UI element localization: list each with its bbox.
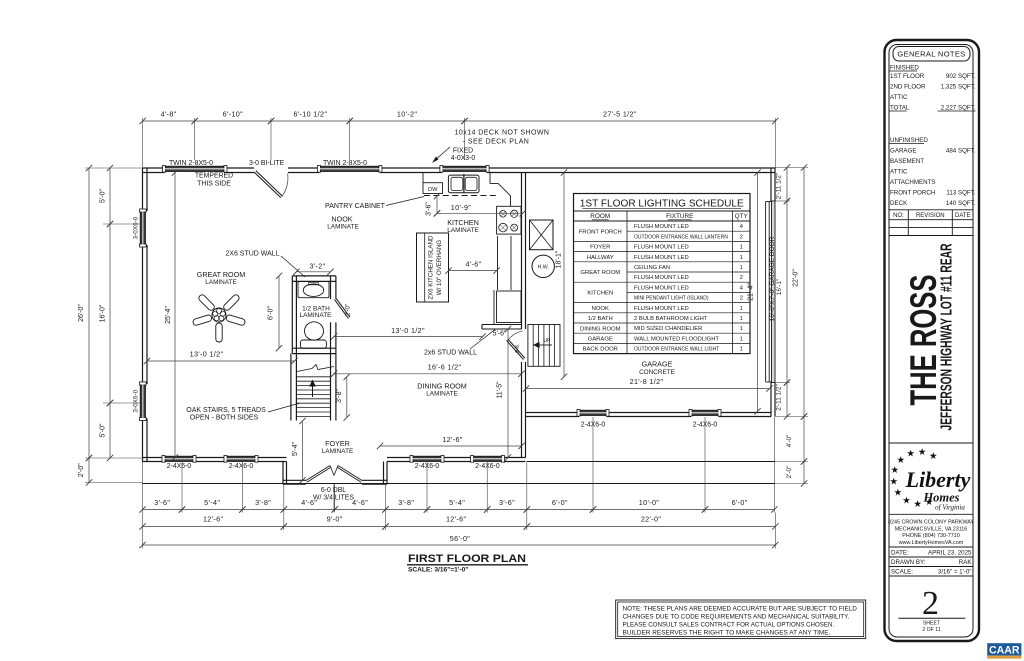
svg-text:DECK: DECK xyxy=(890,200,908,207)
svg-text:LAMINATE: LAMINATE xyxy=(447,227,479,234)
svg-text:2-4X6-0: 2-4X6-0 xyxy=(167,463,192,470)
oak stairs treads xyxy=(296,376,330,378)
ceiling fan, great room xyxy=(222,294,240,312)
svg-text:PANTRY CABINET: PANTRY CABINET xyxy=(325,203,386,210)
svg-text:1: 1 xyxy=(740,336,743,342)
svg-text:2: 2 xyxy=(922,585,939,622)
svg-text:SCALE:: SCALE: xyxy=(891,569,913,576)
dim 3-6 kitchen vertical xyxy=(436,196,438,213)
back wall (north) of house and garage xyxy=(143,167,165,169)
dim 11-5 dining xyxy=(507,329,509,458)
svg-text:MINI PENDANT LIGHT (ISLAND): MINI PENDANT LIGHT (ISLAND) xyxy=(634,296,709,302)
svg-text:2: 2 xyxy=(740,234,743,240)
svg-text:1: 1 xyxy=(740,316,743,322)
stairs up arrow xyxy=(312,385,314,397)
title block outer frame xyxy=(885,40,980,641)
note box xyxy=(616,600,866,639)
svg-text:2ND FLOOR: 2ND FLOOR xyxy=(890,84,926,91)
svg-text:of Virginia: of Virginia xyxy=(935,504,965,512)
svg-text:CEILING FAN: CEILING FAN xyxy=(634,265,670,271)
door 2-8 hall to garage: leaf + arc xyxy=(507,341,524,360)
range w/ 4 burners xyxy=(497,206,521,234)
svg-text:FLUSH MOUNT LED: FLUSH MOUNT LED xyxy=(634,306,689,312)
dim 10-9 kitchen xyxy=(437,212,523,214)
svg-text:FINISHED: FINISHED xyxy=(890,65,919,72)
kitchen island 2x6 w/ 10in overhang xyxy=(417,233,449,302)
svg-text:LAMINATE: LAMINATE xyxy=(299,312,332,319)
svg-text:SCALE: 3/16"=1'-0": SCALE: 3/16"=1'-0" xyxy=(408,567,468,574)
svg-text:★: ★ xyxy=(913,499,922,510)
svg-text:4'-8": 4'-8" xyxy=(161,110,177,119)
house/garage divider wall xyxy=(521,173,523,330)
svg-text:DATE: DATE xyxy=(955,213,971,219)
svg-text:6'-0": 6'-0" xyxy=(268,306,275,320)
foyer bump-out front wall w/ entry door opening xyxy=(283,479,306,481)
svg-text:WALL MOUNTED FLOODLIGHT: WALL MOUNTED FLOODLIGHT xyxy=(634,336,719,342)
kitchen counter corner to range xyxy=(490,184,511,207)
window 2-4x6-0 (garage front east) xyxy=(691,410,719,415)
svg-text:4-0X3-0: 4-0X3-0 xyxy=(451,155,476,162)
svg-text:10'-0": 10'-0" xyxy=(639,498,660,507)
svg-text:2'-0": 2'-0" xyxy=(78,463,85,477)
svg-text:FRONT PORCH: FRONT PORCH xyxy=(890,190,935,197)
svg-text:18'-1": 18'-1" xyxy=(556,250,563,268)
svg-text:MECHANICSVILLE, VA 23116: MECHANICSVILLE, VA 23116 xyxy=(895,526,968,532)
svg-text:MID SIZED CHANDELIER: MID SIZED CHANDELIER xyxy=(634,326,702,332)
svg-text:6'-0": 6'-0" xyxy=(552,498,568,507)
1st floor lighting schedule table xyxy=(574,194,751,354)
svg-text:16'-1": 16'-1" xyxy=(776,279,783,295)
svg-text:2 BULB BATHROOM LIGHT: 2 BULB BATHROOM LIGHT xyxy=(634,316,708,322)
svg-text:10x14 DECK NOT SHOWN: 10x14 DECK NOT SHOWN xyxy=(455,130,550,137)
svg-text:www.LibertyHomesVA.com: www.LibertyHomesVA.com xyxy=(898,540,964,546)
dim 3-2 half bath xyxy=(296,271,330,273)
svg-text:HALLWAY: HALLWAY xyxy=(587,255,614,261)
svg-text:25'-4": 25'-4" xyxy=(165,306,172,324)
svg-text:2-8: 2-8 xyxy=(515,345,521,353)
top dimension string xyxy=(194,118,196,160)
svg-text:W/ 10" OVERHANG: W/ 10" OVERHANG xyxy=(436,240,443,296)
svg-text:SHEET: SHEET xyxy=(923,621,941,627)
window 2-4x6-0 (front, dining east) xyxy=(473,456,503,461)
svg-text:16'-6 1/2": 16'-6 1/2" xyxy=(428,362,462,371)
garage right (east) wall xyxy=(770,168,772,202)
svg-text:UP: UP xyxy=(544,338,552,344)
svg-text:5'-4": 5'-4" xyxy=(204,498,220,507)
bottom dimension extension lines xyxy=(142,462,144,513)
svg-text:GREAT ROOM: GREAT ROOM xyxy=(197,270,245,279)
svg-text:4'-0": 4'-0" xyxy=(786,435,793,448)
garage interior dims xyxy=(563,173,565,377)
plan name: THE ROSS xyxy=(889,236,973,238)
svg-text:4'-6": 4'-6" xyxy=(465,260,481,269)
svg-text:PLEASE CONSULT SALES CONTRACT: PLEASE CONSULT SALES CONTRACT FOR ACTUAL… xyxy=(623,621,835,628)
svg-text:OUTDOOR ENTRANCE WALL LIGHT: OUTDOOR ENTRANCE WALL LIGHT xyxy=(634,347,719,353)
furnace (box with X) xyxy=(530,220,554,250)
svg-text:APRIL 23, 2025: APRIL 23, 2025 xyxy=(928,550,972,557)
svg-text:LAMINATE: LAMINATE xyxy=(327,224,359,231)
svg-text:6'-0": 6'-0" xyxy=(732,498,748,507)
dim 3-8 stairs xyxy=(346,377,348,418)
2x6 stud wall kitchen/hall xyxy=(482,324,522,326)
svg-text:3'-6": 3'-6" xyxy=(499,498,515,507)
dim 5-4 foyer xyxy=(302,421,304,480)
window 2-4x6-0 (front, great room east) xyxy=(226,456,256,461)
half bath door 2-0 leaf + arc xyxy=(335,300,349,319)
svg-text:1ST FLOOR LIGHTING SCHEDULE: 1ST FLOOR LIGHTING SCHEDULE xyxy=(580,199,744,210)
svg-text:484 SQFT.: 484 SQFT. xyxy=(946,148,976,155)
svg-text:QTY: QTY xyxy=(735,213,749,220)
svg-text:JEFFERSON HIGHWAY LOT #11 REAR: JEFFERSON HIGHWAY LOT #11 REAR xyxy=(939,243,956,430)
interior dim 13-0 1/2 great room xyxy=(147,360,294,362)
svg-text:22'-0": 22'-0" xyxy=(641,515,662,524)
svg-text:TEMPERED: TEMPERED xyxy=(195,173,233,180)
right side dimension strings xyxy=(775,167,808,169)
svg-text:902 SQFT.: 902 SQFT. xyxy=(946,73,976,80)
svg-text:3'-6": 3'-6" xyxy=(426,202,433,216)
svg-text:FLUSH MOUNT LED: FLUSH MOUNT LED xyxy=(634,255,689,261)
pantry cabinet dashed line along counter xyxy=(424,195,498,197)
garage front wall w/ two window openings xyxy=(526,412,580,414)
svg-text:OUTDOOR ENTRANCE WALL LANTERN: OUTDOOR ENTRANCE WALL LANTERN xyxy=(634,234,728,240)
svg-text:LAMINATE: LAMINATE xyxy=(322,448,354,455)
svg-text:12'-6": 12'-6" xyxy=(442,435,463,444)
svg-text:★: ★ xyxy=(891,465,900,476)
svg-text:LAMINATE: LAMINATE xyxy=(426,391,458,398)
svg-text:1: 1 xyxy=(740,255,743,261)
svg-text:4'-6": 4'-6" xyxy=(352,498,368,507)
svg-text:9'-0": 9'-0" xyxy=(327,515,343,524)
svg-text:2,227 SQFT.: 2,227 SQFT. xyxy=(941,105,976,112)
svg-text:- SEE DECK PLAN: - SEE DECK PLAN xyxy=(463,139,530,146)
svg-text:3-0X6-0: 3-0X6-0 xyxy=(133,216,140,239)
kitchen sink double bowl xyxy=(448,175,479,193)
svg-text:5'-0": 5'-0" xyxy=(100,423,107,437)
svg-text:3-0X6-0: 3-0X6-0 xyxy=(133,389,140,412)
svg-text:3'-8": 3'-8" xyxy=(255,498,271,507)
kitchen cabinet stub wall left of DW xyxy=(422,173,424,184)
svg-text:12'-6": 12'-6" xyxy=(446,515,467,524)
revision table xyxy=(889,209,973,211)
svg-text:16'-0": 16'-0" xyxy=(100,304,107,322)
window twin 2-8x5-0 (great room north) xyxy=(164,166,225,171)
window twin 2-8x5-0 (nook north) xyxy=(319,166,380,171)
svg-text:BASEMENT: BASEMENT xyxy=(890,158,924,165)
svg-text:DW: DW xyxy=(428,187,438,193)
interior dim 25-4 great room xyxy=(174,173,176,458)
garage dim 21-8 1/2 xyxy=(526,388,770,390)
left (west) exterior wall xyxy=(142,168,144,211)
svg-text:H.W.: H.W. xyxy=(538,264,549,270)
landing break line xyxy=(297,365,334,372)
svg-text:OAK STAIRS, 5 TREADS: OAK STAIRS, 5 TREADS xyxy=(186,407,266,414)
svg-text:PHONE (804) 730-7710: PHONE (804) 730-7710 xyxy=(902,533,960,539)
svg-text:CONCRETE: CONCRETE xyxy=(639,369,675,376)
garage door 16-0x7-0 in right wall xyxy=(772,201,776,383)
foyer bump-out east jog xyxy=(383,462,385,485)
general notes header xyxy=(893,47,970,62)
dim 12-6 dining xyxy=(380,445,522,447)
svg-text:ROOM: ROOM xyxy=(590,213,610,220)
bottom dim row 1 xyxy=(143,509,183,511)
svg-text:5'-4": 5'-4" xyxy=(449,498,465,507)
svg-text:2'-0": 2'-0" xyxy=(786,466,793,479)
svg-text:CHANGES DUE TO CODE REQUIREMEN: CHANGES DUE TO CODE REQUIREMENTS AND MEC… xyxy=(623,613,850,620)
svg-text:NOTE: THESE PLANS ARE DEEMED A: NOTE: THESE PLANS ARE DEEMED ACCURATE BU… xyxy=(623,605,858,612)
svg-text:FLUSH MOUNT LED: FLUSH MOUNT LED xyxy=(634,275,689,281)
svg-text:★: ★ xyxy=(929,451,938,462)
svg-text:FOYER: FOYER xyxy=(590,245,610,251)
svg-text:DRAWN BY:: DRAWN BY: xyxy=(891,559,926,566)
dim 13-0 1/2 nook/kitchen xyxy=(334,336,483,338)
svg-text:2-4X6-0: 2-4X6-0 xyxy=(229,463,254,470)
svg-text:11'-5": 11'-5" xyxy=(497,381,504,399)
svg-text:RAK: RAK xyxy=(959,559,973,566)
svg-text:★: ★ xyxy=(918,447,927,458)
svg-text:5'-6": 5'-6" xyxy=(493,330,507,337)
svg-text:1: 1 xyxy=(740,245,743,251)
svg-text:113 SQFT.: 113 SQFT. xyxy=(946,190,975,197)
svg-text:1: 1 xyxy=(740,347,743,353)
svg-text:2X6 KITCHEN ISLAND: 2X6 KITCHEN ISLAND xyxy=(427,235,434,299)
svg-text:2'-11 1/2": 2'-11 1/2" xyxy=(776,384,783,410)
svg-text:NOOK: NOOK xyxy=(331,215,352,224)
svg-text:2'-0": 2'-0" xyxy=(345,304,352,317)
svg-text:3'-2": 3'-2" xyxy=(309,261,325,270)
svg-text:3/16" = 1'-0": 3/16" = 1'-0" xyxy=(938,569,972,576)
svg-text:2x6 STUD WALL: 2x6 STUD WALL xyxy=(424,350,477,357)
svg-text:ATTIC: ATTIC xyxy=(890,94,908,101)
svg-text:★: ★ xyxy=(890,477,899,488)
svg-text:KITCHEN: KITCHEN xyxy=(587,291,613,297)
svg-text:6'-10": 6'-10" xyxy=(223,110,244,119)
svg-text:1/2 BATH: 1/2 BATH xyxy=(588,316,613,322)
svg-text:OPEN - BOTH SIDES: OPEN - BOTH SIDES xyxy=(190,415,259,422)
svg-text:26'-0": 26'-0" xyxy=(78,304,85,322)
water heater H.W. xyxy=(532,255,554,277)
garage entry stairs w/ UP arrow xyxy=(528,325,560,367)
stoop edge line right of house front xyxy=(527,461,776,463)
svg-text:FLUSH MOUNT LED: FLUSH MOUNT LED xyxy=(634,285,689,291)
svg-text:56'-0": 56'-0" xyxy=(450,534,471,543)
svg-text:3'-8": 3'-8" xyxy=(398,498,414,507)
svg-text:2X6 STUD WALL: 2X6 STUD WALL xyxy=(225,251,279,258)
window fixed 4-0x3-0 (kitchen north) xyxy=(442,166,487,171)
svg-text:21'-8 1/2": 21'-8 1/2" xyxy=(630,377,664,386)
dim 16-6 1/2 hall xyxy=(334,373,522,375)
svg-text:1,325 SQFT.: 1,325 SQFT. xyxy=(941,84,976,91)
svg-text:THIS SIDE: THIS SIDE xyxy=(197,181,231,188)
window 3-0x6-0 (left wall upper) xyxy=(140,211,145,245)
CAAR logo xyxy=(987,643,1021,655)
svg-text:FLUSH MOUNT LED: FLUSH MOUNT LED xyxy=(634,245,689,251)
svg-text:CAAR: CAAR xyxy=(989,645,1020,657)
svg-text:GARAGE: GARAGE xyxy=(588,337,613,343)
window 3-0x6-0 (left wall lower) xyxy=(140,384,145,419)
svg-text:GREAT ROOM: GREAT ROOM xyxy=(580,270,620,276)
svg-text:LAMINATE: LAMINATE xyxy=(205,279,237,286)
svg-text:FRONT PORCH: FRONT PORCH xyxy=(579,229,622,235)
half bath walls xyxy=(291,276,293,354)
front (south) wall, great room side xyxy=(143,457,165,459)
svg-text:5'-0": 5'-0" xyxy=(100,189,107,203)
svg-text:NO:: NO: xyxy=(893,213,904,219)
svg-text:ATTIC: ATTIC xyxy=(890,169,908,176)
svg-text:GARAGE: GARAGE xyxy=(642,360,673,369)
svg-text:22'-0": 22'-0" xyxy=(793,269,800,287)
svg-text:TWIN 2-8X5-0: TWIN 2-8X5-0 xyxy=(323,160,367,167)
window 2-4x6-0 (front, dining west) xyxy=(412,456,442,461)
svg-text:KITCHEN: KITCHEN xyxy=(447,218,479,227)
refrigerator xyxy=(493,290,495,325)
svg-text:FIXTURE: FIXTURE xyxy=(666,213,693,220)
svg-text:10'-9": 10'-9" xyxy=(451,203,472,212)
svg-text:2'-11 1/2": 2'-11 1/2" xyxy=(776,173,783,199)
svg-text:2-4X6-0: 2-4X6-0 xyxy=(475,463,500,470)
svg-text:1: 1 xyxy=(740,306,743,312)
svg-text:TWIN 2-8X5-0: TWIN 2-8X5-0 xyxy=(169,160,213,167)
door 3-0 bi-lite leaf + swing arc xyxy=(254,172,281,198)
svg-text:NOOK: NOOK xyxy=(592,306,609,312)
svg-text:REVISION: REVISION xyxy=(916,213,945,219)
svg-text:10'-2": 10'-2" xyxy=(397,110,418,119)
svg-text:4'-6": 4'-6" xyxy=(301,498,317,507)
date / drawn by / scale rows xyxy=(889,546,973,548)
svg-text:UNFINISHED: UNFINISHED xyxy=(890,137,928,144)
svg-text:FIRST FLOOR PLAN: FIRST FLOOR PLAN xyxy=(408,553,526,565)
svg-text:★: ★ xyxy=(902,496,911,507)
svg-text:GENERAL NOTES: GENERAL NOTES xyxy=(897,50,965,59)
svg-text:13'-0 1/2": 13'-0 1/2" xyxy=(391,326,425,335)
svg-text:TOTAL: TOTAL xyxy=(890,105,910,112)
svg-text:2 OF 11: 2 OF 11 xyxy=(922,627,940,633)
svg-text:21'-4": 21'-4" xyxy=(747,283,754,301)
left dimension strings xyxy=(85,167,143,169)
entry double door 6-0 dbl w/ 3/4 lites xyxy=(306,466,330,481)
kitchen counter run below range xyxy=(497,236,499,290)
dim 6-0 half bath xyxy=(278,276,280,348)
svg-text:1: 1 xyxy=(740,326,743,332)
svg-text:13'-0 1/2": 13'-0 1/2" xyxy=(190,350,224,359)
svg-text:DINING ROOM: DINING ROOM xyxy=(417,382,467,391)
svg-text:BACK DOOR: BACK DOOR xyxy=(583,347,618,353)
svg-text:3'-8": 3'-8" xyxy=(336,389,343,403)
half bath toilet xyxy=(305,322,324,340)
svg-text:Homes: Homes xyxy=(922,491,959,505)
dishwasher DW xyxy=(423,183,443,194)
svg-text:FOYER: FOYER xyxy=(325,439,350,448)
half bath vanity + sink xyxy=(298,281,329,297)
svg-text:GARAGE: GARAGE xyxy=(890,148,916,155)
front porch front edge line xyxy=(143,483,776,485)
svg-text:3'-6": 3'-6" xyxy=(154,498,170,507)
svg-text:6-0 DBL: 6-0 DBL xyxy=(321,487,346,494)
svg-text:FLUSH MOUNT LED: FLUSH MOUNT LED xyxy=(634,224,689,230)
svg-text:BUILDER RESERVES THE RIGHT TO: BUILDER RESERVES THE RIGHT TO MAKE CHANG… xyxy=(623,629,831,636)
svg-text:5'-4": 5'-4" xyxy=(292,442,299,456)
foyer bump-out west jog xyxy=(282,462,284,485)
svg-text:1ST FLOOR: 1ST FLOOR xyxy=(890,73,925,80)
svg-text:3-0 BI-LITE: 3-0 BI-LITE xyxy=(249,160,285,167)
dim 4-6 island to counter xyxy=(449,270,497,272)
window 2-4x6-0 (front, great room west) xyxy=(164,456,194,461)
svg-text:Liberty: Liberty xyxy=(905,467,971,492)
svg-text:27'-5 1/2": 27'-5 1/2" xyxy=(603,110,637,119)
svg-text:140 SQFT.: 140 SQFT. xyxy=(946,200,976,207)
bottom dim row 2 xyxy=(143,526,284,528)
svg-text:6'-10 1/2": 6'-10 1/2" xyxy=(293,110,327,119)
svg-text:DINING ROOM: DINING ROOM xyxy=(580,326,621,332)
svg-text:★: ★ xyxy=(906,449,915,460)
front (south) wall, dining side xyxy=(387,457,412,459)
bottom dim row 3 (overall) xyxy=(143,544,776,546)
window 2-4x6-0 (garage front west) xyxy=(579,410,607,415)
svg-text:2: 2 xyxy=(740,296,743,302)
svg-text:1: 1 xyxy=(740,265,743,271)
stair well side walls xyxy=(290,354,292,421)
svg-text:FIXED: FIXED xyxy=(453,148,473,155)
svg-text:DATE:: DATE: xyxy=(891,550,909,557)
svg-text:ATTACHMENTS: ATTACHMENTS xyxy=(890,179,936,186)
svg-text:2: 2 xyxy=(740,275,743,281)
svg-text:8245 CROWN COLONY PARKWAY: 8245 CROWN COLONY PARKWAY xyxy=(888,520,974,526)
svg-text:12'-6": 12'-6" xyxy=(203,515,224,524)
